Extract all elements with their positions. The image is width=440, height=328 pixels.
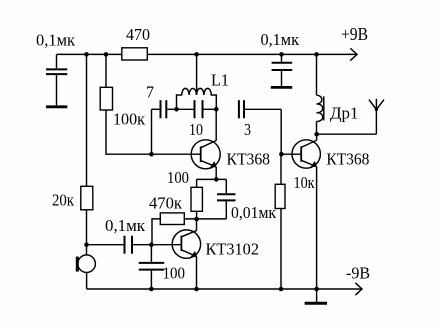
antenna WA1: [369, 99, 384, 135]
svg-text:L1: L1: [211, 71, 229, 90]
capacitor C4 3: [239, 100, 281, 118]
node tank left: [174, 107, 179, 112]
inductor L1: [177, 88, 217, 109]
resistor R3 100: [191, 187, 202, 211]
node rail VT3 emitter: [194, 287, 199, 292]
wire L1 tap to rail: [196, 54, 198, 94]
node VT1 emitter: [214, 177, 219, 182]
svg-text:0,01мк: 0,01мк: [231, 203, 277, 222]
node base line / C2 riser: [149, 152, 154, 157]
wire VT2 emitter to bottom rail: [316, 167, 318, 290]
node tank right: [214, 107, 219, 112]
transistor VT3 КТ3102: [172, 230, 200, 258]
svg-text:10: 10: [189, 120, 203, 139]
svg-text:-9В: -9В: [346, 264, 370, 283]
wire emitter node arms: [197, 179, 227, 193]
transistor VT1 КТ368: [191, 140, 220, 169]
wire top +9V rail: [57, 53, 358, 55]
svg-text:КТ368: КТ368: [326, 149, 369, 168]
wire bottom -9V rail: [87, 288, 362, 290]
ground: [305, 289, 327, 303]
resistor R4 470к: [160, 213, 184, 225]
node rail tap: [194, 52, 199, 57]
wire VT3 emitter to bottom rail: [196, 256, 198, 289]
svg-text:0,1мк: 0,1мк: [105, 216, 146, 235]
wire 100к down and base line of VT1: [106, 110, 201, 154]
svg-text:100: 100: [167, 168, 189, 187]
node R3/R4 junction: [194, 217, 199, 222]
capacitor C7 0,1мк (mic coupling): [87, 236, 182, 254]
capacitor C3 10: [177, 100, 217, 118]
wire riser tank to base line: [151, 109, 153, 154]
svg-text:0,1мк: 0,1мк: [261, 30, 300, 49]
svg-text:470: 470: [126, 25, 150, 44]
svg-text:20к: 20к: [52, 191, 75, 210]
node rail 10к: [279, 287, 284, 292]
wire 20к to microphone node: [86, 210, 88, 255]
svg-text:100: 100: [163, 263, 186, 282]
inductor Др1 choke: [317, 54, 324, 134]
node rail left 1: [84, 52, 89, 57]
svg-text:КТ368: КТ368: [227, 149, 271, 168]
node rail right Dr1: [314, 52, 319, 57]
microphone BM1: [77, 255, 95, 273]
wire VT3 collector up to node: [196, 219, 198, 231]
capacitor C8 100: [139, 245, 165, 289]
svg-text:10к: 10к: [294, 173, 316, 192]
svg-text:470к: 470к: [149, 193, 183, 212]
wire R4 left to base node: [152, 219, 160, 245]
node Dr1 / VT2 collector: [314, 132, 319, 137]
svg-text:100к: 100к: [113, 110, 146, 129]
wire microphone to bottom rail: [86, 273, 88, 290]
transistor VT2 КТ368: [292, 140, 320, 168]
+9V arrowhead: [351, 49, 357, 61]
wire C4 to VT2 base: [281, 109, 301, 154]
wire 10к to bottom rail: [280, 209, 282, 290]
wire VT2 base node to 10к: [280, 154, 282, 184]
wire rail to 100к: [105, 54, 107, 87]
capacitor C2 7: [152, 100, 177, 118]
wire VT2 collector to Dr1 node: [316, 134, 318, 140]
node base of KT3102 line at mic: [84, 242, 89, 247]
node rail ground: [314, 287, 319, 292]
resistor R6 470: [122, 48, 148, 60]
node rail C8: [149, 287, 154, 292]
capacitor C6 0,01мк: [217, 194, 236, 219]
capacitor C5 0,1мк (top right): [271, 54, 292, 87]
resistor R1 20к: [81, 186, 93, 210]
wire VT1 emitter down: [215, 167, 217, 180]
svg-text:КТ3102: КТ3102: [206, 240, 260, 259]
resistor R5 10к: [275, 184, 285, 208]
node rail left 2: [104, 52, 109, 57]
wire emitter network bottom line: [184, 218, 226, 220]
wire antenna feed: [317, 133, 377, 135]
wire left branch down from rail: [86, 54, 88, 186]
capacitor C1 0,1мк (top left): [46, 54, 67, 106]
svg-text:Др1: Др1: [330, 103, 359, 122]
svg-text:3: 3: [244, 120, 251, 139]
node VT2 base: [279, 152, 284, 157]
svg-text:0,1мк: 0,1мк: [36, 31, 76, 50]
-9V arrowhead: [356, 283, 362, 294]
wire R3 bottom: [196, 211, 198, 219]
svg-text:+9В: +9В: [341, 24, 368, 44]
wire VT1 collector to tank: [215, 109, 217, 140]
svg-text:7: 7: [146, 83, 154, 102]
node VT3 base: [149, 242, 154, 247]
node rail right C5: [279, 52, 284, 57]
resistor R2 100к: [100, 87, 112, 110]
